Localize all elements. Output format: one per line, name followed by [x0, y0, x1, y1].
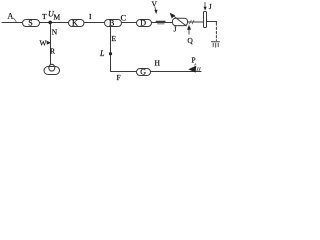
- component G: [137, 69, 151, 76]
- svg-text:N: N: [52, 28, 58, 37]
- component K: [69, 20, 85, 27]
- cut slashes on wire near Q: [190, 20, 192, 24]
- wire K to B: [84, 22, 105, 24]
- svg-text:E: E: [112, 34, 117, 43]
- wire S to node U: [40, 22, 69, 24]
- wire J to capacitor: [188, 21, 204, 23]
- svg-text:H: H: [155, 59, 161, 68]
- rheostat arrow diagonal: [173, 15, 186, 26]
- wire capacitor to corner: [207, 22, 216, 24]
- wire top-left segment: [2, 22, 22, 24]
- letter O drawn as ellipse overlapping oval top: [49, 64, 55, 71]
- arrow pointing down at capacitor: [204, 2, 206, 7]
- connector symbol (thick bar + thin bar) pointed by V: [156, 20, 165, 22]
- component O oval: [44, 67, 60, 75]
- ground symbol: [211, 41, 219, 43]
- branch from B down: [110, 26, 112, 71]
- svg-text:R: R: [50, 47, 55, 56]
- svg-text:Q: Q: [187, 36, 193, 45]
- svg-text:F: F: [117, 73, 121, 82]
- cut slashes at end of bottom wire: [197, 67, 199, 71]
- wire D to connector V: [152, 22, 173, 24]
- svg-text:D: D: [140, 18, 146, 27]
- svg-text:P: P: [192, 56, 196, 65]
- svg-text:T: T: [42, 12, 47, 21]
- svg-text:V: V: [152, 0, 158, 9]
- svg-text:L: L: [99, 49, 105, 58]
- node L junction dot: [109, 52, 112, 55]
- svg-text:J: J: [209, 2, 212, 11]
- svg-text:J: J: [174, 25, 177, 34]
- bottom wire: [111, 71, 137, 73]
- component S: [23, 20, 40, 27]
- svg-text:G: G: [140, 68, 146, 77]
- svg-text:B: B: [109, 18, 114, 27]
- component J rheostat box: [173, 18, 188, 25]
- svg-text:A: A: [8, 12, 14, 21]
- dashed wire down right edge: [215, 23, 217, 41]
- node U junction dot: [48, 21, 52, 25]
- component B: [105, 20, 122, 27]
- wire B to D: [122, 22, 137, 24]
- component D: [137, 20, 152, 27]
- svg-text:C: C: [121, 13, 127, 23]
- svg-text:I: I: [89, 12, 92, 21]
- svg-text:K: K: [72, 18, 78, 27]
- svg-text:W: W: [40, 39, 48, 48]
- svg-text:M: M: [54, 13, 61, 22]
- wire G to end: [151, 71, 202, 73]
- svg-text:S: S: [28, 18, 32, 27]
- capacitor plates top right: [204, 12, 207, 28]
- node U vertical branch: [50, 23, 52, 65]
